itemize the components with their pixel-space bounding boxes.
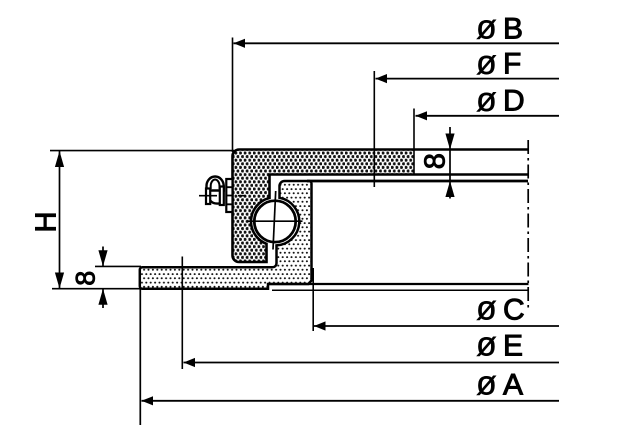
grease nipple xyxy=(199,177,246,213)
svg-text:H: H xyxy=(31,212,63,233)
outer ring section xyxy=(233,150,529,263)
svg-text:F: F xyxy=(503,48,521,81)
svg-text:C: C xyxy=(503,293,525,326)
svg-text:ø: ø xyxy=(476,290,497,328)
dimension oF xyxy=(374,44,559,187)
inner ring top face line xyxy=(307,180,528,183)
svg-text:D: D xyxy=(503,85,525,118)
svg-text:ø: ø xyxy=(476,326,497,364)
dimension 8 right xyxy=(420,127,455,199)
ball xyxy=(248,191,303,250)
svg-text:E: E xyxy=(503,329,523,362)
svg-text:B: B xyxy=(503,12,523,45)
svg-text:ø: ø xyxy=(476,44,497,82)
dimension oB xyxy=(233,9,560,153)
dimension oA xyxy=(140,289,559,425)
svg-text:ø: ø xyxy=(476,81,497,119)
svg-text:8: 8 xyxy=(71,271,101,286)
bolt hole centerline xyxy=(527,140,529,308)
svg-text:ø: ø xyxy=(476,365,497,403)
dimension 8 left xyxy=(71,247,142,309)
svg-text:8: 8 xyxy=(420,153,452,169)
dimension oD xyxy=(414,81,559,175)
inner ring section xyxy=(140,181,312,289)
dimension oE xyxy=(182,257,559,370)
svg-text:A: A xyxy=(503,368,523,401)
svg-text:ø: ø xyxy=(476,9,497,47)
dimension oC xyxy=(313,268,559,331)
dimension H xyxy=(31,151,235,289)
inner ring bottom face lines xyxy=(268,283,529,285)
